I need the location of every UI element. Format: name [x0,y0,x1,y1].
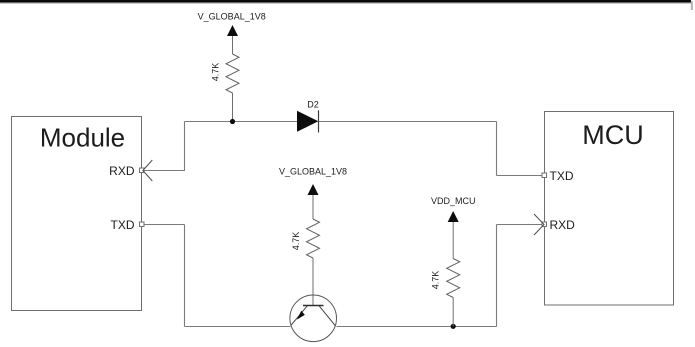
scrollbar fragment top-right [691,1,693,10]
power symbol V_GLOBAL_1V8 (left) [227,25,238,36]
power symbol V_GLOBAL_1V8 (middle) [308,184,319,195]
wire power to R3 [452,222,454,259]
resistor R1 4.7K zigzag [226,54,239,93]
top window border bar [0,0,691,4]
junction dot top rail [230,119,235,124]
svg-text:TXD: TXD [111,218,135,232]
svg-text:RXD: RXD [109,164,135,178]
net label V_GLOBAL_1V8 (left) [198,12,266,22]
transistor Q1 [290,295,337,342]
net label VDD_MCU [431,196,476,206]
input arrow at Module.RXD [143,160,153,181]
net label V_GLOBAL_1V8 (middle) [279,167,347,177]
ref label D2 [307,100,319,110]
wire up to MCU.RXD level [496,225,498,327]
pin square Module.RXD [140,168,145,173]
pin square MCU.TXD [542,173,547,178]
wire diode cathode to right corner [319,121,497,123]
wire transistor collector to right [337,326,497,328]
svg-text:D2: D2 [307,100,319,110]
pin square MCU.RXD [542,222,547,227]
label Module [40,123,125,153]
wire down to MCU.TXD level [496,122,498,176]
svg-text:VDD_MCU: VDD_MCU [431,196,476,206]
wire R2 to transistor base [312,258,314,306]
wire into MCU.TXD pin [497,175,543,177]
resistor R2 4.7K zigzag [307,219,320,258]
wire Module.TXD to corner [145,224,185,226]
svg-text:MCU: MCU [582,120,644,150]
wire Module.RXD to corner [145,170,186,172]
power symbol VDD_MCU [448,211,459,222]
wire R1 to junction [232,93,234,122]
wire into MCU.RXD arrow [497,224,542,226]
svg-text:V_GLOBAL_1V8: V_GLOBAL_1V8 [279,167,347,177]
svg-text:Module: Module [40,123,125,153]
value label 4.7K (R2) [291,232,301,251]
value label 4.7K (R3) [431,271,441,290]
svg-text:V_GLOBAL_1V8: V_GLOBAL_1V8 [198,12,266,22]
block MCU [545,112,674,306]
pin label TXD (MCU) [550,169,574,183]
resistor R3 4.7K zigzag [447,259,460,298]
wire power to R2 [312,195,314,219]
block Module [12,117,142,311]
svg-text:4.7K: 4.7K [291,232,301,251]
wire corner down to bottom rail [184,225,186,327]
pin label RXD (Module) [109,164,135,178]
wire corner up to top rail [184,122,186,171]
label MCU [582,120,644,150]
wire bottom rail to transistor emitter [185,326,291,328]
value label 4.7K (R1) [211,63,221,82]
svg-text:TXD: TXD [550,169,574,183]
pin square Module.TXD [140,222,145,227]
wire top rail to diode anode [185,121,298,123]
diode D2 [297,110,319,132]
wire power to R1 [232,36,234,54]
svg-text:RXD: RXD [550,218,576,232]
pin label TXD (Module) [111,218,135,232]
svg-text:4.7K: 4.7K [431,271,441,290]
svg-text:4.7K: 4.7K [211,63,221,82]
wire R3 to junction [452,298,454,327]
input arrow at MCU.RXD [534,214,544,235]
pin label RXD (MCU) [550,218,576,232]
junction dot bottom rail [451,324,456,329]
